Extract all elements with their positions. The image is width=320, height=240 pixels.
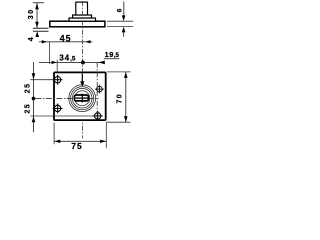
svg-text:75: 75 xyxy=(71,141,82,151)
svg-text:25: 25 xyxy=(25,83,32,94)
svg-text:4: 4 xyxy=(28,37,35,41)
svg-text:45: 45 xyxy=(60,33,72,43)
svg-text:25: 25 xyxy=(25,103,32,114)
svg-text:70: 70 xyxy=(116,93,123,103)
svg-text:19,5: 19,5 xyxy=(105,50,120,59)
svg-text:34,5: 34,5 xyxy=(59,53,76,62)
svg-text:6: 6 xyxy=(116,8,123,12)
svg-text:30: 30 xyxy=(28,8,35,19)
